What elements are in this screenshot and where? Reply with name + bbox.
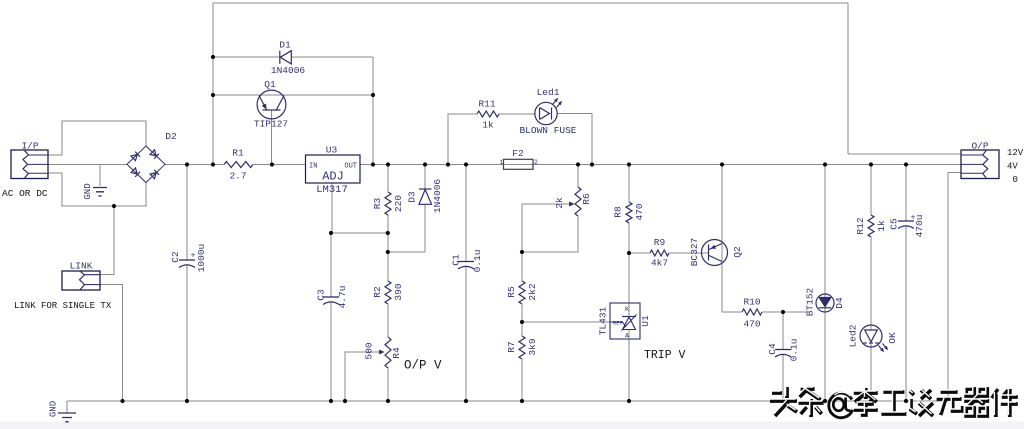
wire [271, 110, 273, 165]
label C5 plus [911, 214, 916, 223]
wire [628, 165, 630, 254]
svg-text:1k: 1k [876, 220, 887, 232]
label R12 [855, 217, 866, 234]
label O/P [971, 141, 988, 152]
svg-text:R5: R5 [506, 286, 517, 298]
resistor R8 [626, 202, 632, 223]
label C2 [170, 251, 181, 263]
svg-text:LINK FOR SINGLE TX: LINK FOR SINGLE TX [14, 301, 112, 311]
wire [629, 252, 708, 254]
label 1N4006 [271, 65, 306, 76]
connector J2 O/P [961, 150, 999, 179]
label 390 [393, 283, 404, 300]
resistor R1 [224, 162, 253, 168]
wire [212, 3, 214, 165]
svg-text:ADJ: ADJ [322, 170, 344, 184]
wire [213, 2, 848, 4]
label 2k [554, 197, 565, 209]
wire [48, 121, 146, 155]
label R10 470 [743, 319, 760, 330]
LED Led1 [535, 98, 562, 125]
diode D1 [280, 51, 292, 64]
shunt regulator U1 TL431 [610, 303, 640, 339]
svg-text:A: A [625, 333, 629, 340]
svg-text:R2: R2 [372, 286, 383, 298]
label Led2 [848, 324, 859, 347]
svg-text:D2: D2 [165, 131, 177, 142]
svg-text:1N4006: 1N4006 [271, 65, 306, 76]
svg-text:BT152: BT152 [805, 287, 816, 316]
label C4 [767, 343, 778, 355]
wire [331, 183, 333, 233]
LED Led2 [860, 325, 888, 352]
svg-text:GND: GND [83, 183, 93, 199]
label LINK [70, 261, 93, 272]
svg-text:2k2: 2k2 [527, 283, 538, 300]
label R3 [372, 198, 383, 210]
label C4 0.1u [789, 339, 800, 362]
label R1 [232, 148, 244, 159]
svg-text:O/P V: O/P V [404, 359, 442, 373]
svg-text:Q1: Q1 [264, 79, 276, 90]
label 4.7u [337, 286, 348, 309]
connector LINK [62, 271, 100, 290]
svg-text:U3: U3 [326, 145, 338, 156]
svg-text:TL431: TL431 [598, 306, 609, 335]
label U3 [326, 145, 338, 156]
svg-text:220: 220 [393, 195, 404, 212]
svg-text:0.1u: 0.1u [789, 339, 800, 362]
wire [331, 232, 388, 234]
svg-text:500: 500 [364, 342, 375, 359]
svg-text:D3: D3 [407, 191, 418, 203]
wire [628, 253, 630, 401]
resistor R11 [477, 111, 499, 117]
svg-text:R3: R3 [372, 198, 383, 210]
svg-text:1: 1 [500, 159, 504, 166]
svg-text:AC OR DC: AC OR DC [2, 188, 48, 199]
label 0 [1013, 175, 1018, 185]
wire [387, 165, 389, 234]
svg-text:470u: 470u [914, 215, 925, 238]
pin K [625, 306, 629, 313]
label 12V [1007, 148, 1024, 158]
label C5 [889, 218, 900, 230]
svg-text:12V: 12V [1007, 148, 1024, 158]
wire [521, 322, 523, 401]
resistor R5 [519, 281, 525, 304]
svg-text:OUT: OUT [344, 163, 357, 171]
svg-text:R9: R9 [654, 237, 666, 248]
pin 1 [500, 159, 504, 166]
svg-text:R7: R7 [506, 341, 517, 352]
svg-text:C3: C3 [316, 289, 327, 301]
label R12 1k [876, 220, 887, 232]
svg-text:0: 0 [1013, 175, 1018, 185]
potentiometer R6 [569, 187, 581, 216]
svg-text:R12: R12 [855, 217, 866, 234]
wire [345, 352, 381, 401]
wire [782, 312, 784, 401]
pin OUT [344, 163, 357, 171]
resistor R2 [385, 281, 391, 304]
wire [48, 164, 127, 166]
svg-text:C2: C2 [170, 251, 181, 263]
label TRIP V [644, 349, 686, 362]
svg-text:TRIP V: TRIP V [644, 349, 686, 362]
label C1 [451, 254, 462, 266]
pin 2 [534, 159, 538, 166]
label TIP127 [254, 119, 288, 130]
node VIN rail [165, 164, 305, 166]
wire [85, 206, 115, 275]
svg-text:Led1: Led1 [537, 87, 560, 98]
label 4V [1007, 162, 1018, 172]
diode D3 [419, 189, 432, 204]
wire [372, 57, 374, 165]
label D4 [834, 297, 845, 309]
wire [558, 114, 593, 165]
label 4k7 [651, 258, 668, 269]
svg-text:2: 2 [534, 159, 538, 166]
svg-text:BLOWN FUSE: BLOWN FUSE [519, 125, 576, 136]
label C2 plus [191, 252, 196, 261]
svg-text:Q2: Q2 [732, 246, 743, 258]
svg-text:U1: U1 [640, 315, 651, 327]
pin ADJ [322, 170, 344, 184]
label R8 470 [634, 203, 645, 220]
wire [292, 56, 374, 58]
wire [848, 153, 961, 155]
svg-text:4V: 4V [1007, 162, 1018, 172]
wire [870, 165, 872, 402]
node rail after U3 [360, 164, 961, 166]
label D2 [165, 131, 177, 142]
svg-text:D4: D4 [834, 297, 845, 309]
label BT152 [805, 287, 816, 316]
svg-text:LM317: LM317 [316, 184, 348, 196]
wire [186, 165, 188, 402]
wire [905, 165, 907, 402]
svg-text:Led2: Led2 [848, 324, 859, 347]
svg-text:REF: REF [613, 320, 623, 327]
svg-text:F2: F2 [512, 148, 524, 159]
wire [522, 321, 610, 323]
svg-text:2.7: 2.7 [229, 171, 246, 182]
svg-text:K: K [625, 306, 629, 313]
label Q2 [732, 246, 743, 258]
wire [448, 114, 477, 165]
svg-text:4k7: 4k7 [651, 258, 668, 269]
label R4 [391, 347, 402, 359]
wire [387, 233, 389, 401]
wire [66, 401, 68, 413]
wire [67, 400, 948, 402]
transistor Q2 BC327 [702, 240, 728, 266]
svg-text:+: + [191, 252, 196, 261]
resistor R12 [868, 215, 874, 237]
label BLOWN FUSE [519, 125, 576, 136]
label LM317 [316, 184, 348, 196]
label BC327 [689, 238, 700, 267]
capacitor C5 [898, 221, 914, 229]
bridge rectifier D2 [127, 146, 165, 183]
svg-text:390: 390 [393, 283, 404, 300]
wire [522, 165, 578, 253]
wire [824, 165, 826, 402]
wire [499, 113, 535, 115]
label 470u [914, 215, 925, 238]
svg-text:0.1u: 0.1u [472, 250, 483, 273]
svg-text:IN: IN [309, 163, 317, 171]
potentiometer R4 [379, 337, 391, 368]
svg-text:I/P: I/P [21, 141, 38, 152]
label GND input [83, 183, 93, 199]
label C1 0.1u [472, 250, 483, 273]
label R5 [506, 286, 517, 298]
svg-text:O/P: O/P [971, 141, 988, 152]
regulator U3 LM317 [306, 155, 361, 183]
label 2.7 [229, 171, 246, 182]
label 500 [364, 342, 375, 359]
svg-text:LINK: LINK [70, 261, 93, 272]
label D3 1N4006 [432, 179, 443, 214]
capacitor C3 [323, 297, 339, 305]
svg-text:C4: C4 [767, 343, 778, 355]
capacitor C1 [458, 262, 474, 270]
wire [948, 173, 961, 402]
capacitor C2 [179, 260, 195, 268]
svg-text:BC327: BC327 [689, 238, 700, 267]
wire [847, 3, 849, 154]
svg-text:1N4006: 1N4006 [432, 179, 443, 214]
wire [213, 56, 279, 58]
pin REF [613, 320, 623, 327]
wire [722, 165, 807, 313]
wire [330, 233, 332, 401]
fuse F2 [504, 159, 534, 169]
label C3 [316, 289, 327, 301]
wire [85, 285, 123, 402]
label R6 [581, 193, 592, 205]
label I/P [21, 141, 38, 152]
label 3k9 [527, 338, 538, 355]
wire [465, 165, 467, 402]
connector J1 I/P [11, 150, 48, 179]
wire [388, 165, 425, 253]
svg-text:R1: R1 [232, 148, 244, 159]
svg-text:R10: R10 [743, 297, 760, 308]
resistor R7 [519, 336, 525, 359]
thyristor D4 BT152 [816, 294, 834, 312]
wire [48, 173, 146, 206]
svg-text:C1: C1 [451, 254, 462, 266]
label R7 [506, 341, 517, 352]
svg-text:4.7u: 4.7u [337, 286, 348, 309]
capacitor C4 [775, 350, 791, 358]
label AC OR DC [2, 188, 48, 199]
svg-text:1k: 1k [482, 120, 494, 131]
watermark [769, 385, 1018, 418]
label 220 [393, 195, 404, 212]
svg-text:470: 470 [634, 203, 645, 220]
svg-text:D1: D1 [279, 40, 291, 51]
svg-text:OK: OK [887, 332, 898, 344]
label OK [887, 332, 898, 344]
ground GND bottom [58, 413, 76, 422]
wire [521, 252, 523, 322]
label R11 1k [482, 120, 494, 131]
svg-text:1000u: 1000u [196, 244, 207, 273]
label 1000u [196, 244, 207, 273]
label D1 [279, 40, 291, 51]
label R9 [654, 237, 666, 248]
ground GND input [93, 188, 107, 197]
wire [213, 94, 373, 96]
label R10 [743, 297, 760, 308]
resistor R3 [385, 192, 391, 215]
label Q1 [264, 79, 276, 90]
svg-text:R6: R6 [581, 193, 592, 205]
resistor R10 [742, 309, 762, 315]
label F2 [512, 148, 524, 159]
svg-text:R8: R8 [613, 206, 624, 218]
label R8 [613, 206, 624, 218]
label LINK FOR SINGLE TX [14, 301, 112, 311]
svg-text:R4: R4 [391, 347, 402, 359]
label GND bottom [49, 401, 59, 417]
transistor Q1 [257, 90, 286, 119]
svg-text:TIP127: TIP127 [254, 119, 288, 130]
pin A [625, 333, 629, 340]
svg-text:GND: GND [49, 401, 59, 417]
wire [99, 165, 101, 187]
label Led1 [537, 87, 560, 98]
svg-text:3k9: 3k9 [527, 338, 538, 355]
label TL431 [598, 306, 609, 335]
label R2 [372, 286, 383, 298]
svg-text:R11: R11 [478, 99, 495, 110]
wire [522, 204, 574, 252]
label O/P V [404, 359, 442, 373]
pin IN [309, 163, 317, 171]
label D3 [407, 191, 418, 203]
svg-text:2k: 2k [554, 197, 565, 209]
svg-text:C5: C5 [889, 218, 900, 230]
label 2k2 [527, 283, 538, 300]
svg-text:470: 470 [743, 319, 760, 330]
label U1 [640, 315, 651, 327]
label R11 [478, 99, 495, 110]
resistor R9 [650, 250, 669, 256]
